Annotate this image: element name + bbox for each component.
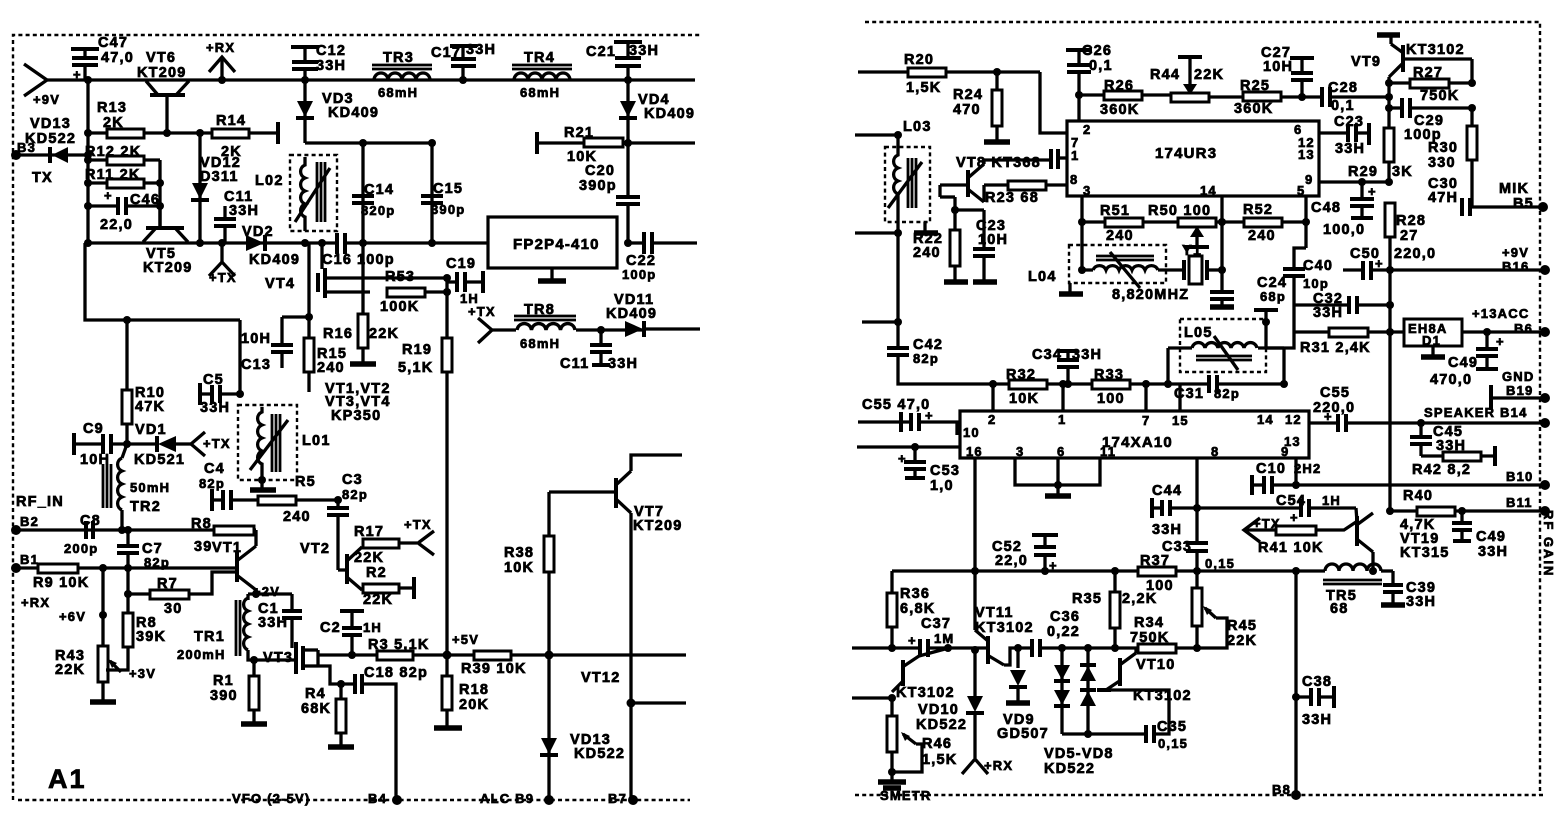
- svg-text:100: 100: [1097, 391, 1125, 407]
- arrow +TX below VT5: [209, 239, 237, 285]
- wire pin14 down: [1218, 196, 1226, 292]
- wire VT9 emitter bus x1389: [1385, 77, 1393, 128]
- resistor R5 240: [258, 474, 342, 525]
- svg-text:33H: 33H: [1302, 712, 1332, 728]
- svg-text:SPEAKER B14: SPEAKER B14: [1424, 405, 1528, 420]
- svg-text:KT3102: KT3102: [896, 685, 955, 701]
- svg-text:KT209: KT209: [137, 65, 187, 81]
- svg-text:KD522: KD522: [25, 131, 76, 147]
- transistor VT8 KT368: [940, 155, 1049, 202]
- svg-text:33H: 33H: [1478, 544, 1508, 560]
- svg-text:100,0: 100,0: [1323, 222, 1365, 238]
- label KP350 group: [325, 381, 391, 424]
- resistor R51 240: [1082, 203, 1245, 244]
- svg-text:82p: 82p: [342, 487, 368, 502]
- svg-text:VT4: VT4: [265, 276, 295, 292]
- svg-text:GD507: GD507: [997, 726, 1049, 742]
- resistor R4 68K: [301, 680, 354, 747]
- svg-text:C16: C16: [322, 252, 352, 268]
- resistor R19 5,1K: [398, 292, 452, 655]
- svg-text:KD521: KD521: [134, 452, 185, 468]
- svg-text:+6V: +6V: [59, 609, 86, 624]
- svg-text:33H: 33H: [1335, 141, 1365, 157]
- capacitor C14: [352, 182, 395, 218]
- wire +9V rail y80: [46, 78, 695, 81]
- capacitor C18 82p: [318, 665, 428, 800]
- svg-text:B16: B16: [1502, 259, 1529, 274]
- svg-text:+TX: +TX: [209, 270, 237, 285]
- svg-text:C55: C55: [1320, 385, 1350, 401]
- svg-text:50mH: 50mH: [130, 480, 170, 495]
- svg-text:RF_IN: RF_IN: [16, 494, 64, 510]
- diode VD11 KD409: [606, 292, 700, 337]
- svg-text:6: 6: [1057, 444, 1065, 459]
- svg-text:R23 68: R23 68: [985, 190, 1039, 206]
- svg-text:22,0: 22,0: [100, 217, 133, 233]
- resistor R39 10K: [443, 651, 687, 678]
- capacitor C23 33H at pin6: [1319, 114, 1369, 157]
- svg-text:1: 1: [1071, 148, 1079, 163]
- wire VT5 emitter to lower stage: [85, 243, 240, 394]
- resistor R12: [84, 144, 160, 165]
- resistor R8 39: [191, 516, 254, 555]
- capacitor C34 33H: [1032, 347, 1102, 388]
- svg-text:VD1: VD1: [135, 422, 167, 438]
- svg-text:R30: R30: [1428, 140, 1458, 156]
- trimmer R46 1,5K: [887, 698, 957, 776]
- capacitor C5 33H: [200, 372, 244, 416]
- svg-text:360K: 360K: [1234, 101, 1273, 117]
- svg-text:VT12: VT12: [581, 670, 620, 686]
- transistor VT1: [212, 530, 256, 594]
- svg-text:7: 7: [1142, 413, 1150, 428]
- trimmer R45 22K: [1192, 571, 1257, 652]
- transistor VT9 KT3102: [1351, 35, 1472, 83]
- capacitor C39 33H: [1381, 571, 1436, 610]
- svg-text:+RX: +RX: [984, 758, 1013, 773]
- node B7: [608, 791, 638, 806]
- svg-text:0,1: 0,1: [1331, 98, 1355, 114]
- resistor R36 6,8K: [887, 571, 935, 648]
- svg-text:10: 10: [963, 425, 980, 440]
- svg-text:GND: GND: [1502, 369, 1535, 384]
- transistor VT6 KT209: [137, 50, 189, 133]
- capacitor C4 82p: [199, 461, 258, 511]
- svg-text:39: 39: [194, 539, 213, 555]
- resistor R42 8,2: [1412, 446, 1495, 478]
- resistor R1 390: [210, 656, 267, 724]
- svg-text:C28: C28: [1328, 80, 1358, 96]
- resistor R22 240: [913, 185, 968, 282]
- wire pin8 column: [1193, 458, 1201, 542]
- svg-text:VD10: VD10: [918, 702, 959, 718]
- wire pin2 pin1 pin7 pin15: [993, 384, 1180, 411]
- node GND B19: [1491, 369, 1550, 410]
- screened coil L04: [1028, 245, 1183, 288]
- svg-text:22,0: 22,0: [995, 553, 1028, 569]
- capacitor C55 47,0: [858, 397, 957, 435]
- svg-text:2H2: 2H2: [1294, 461, 1321, 476]
- inductor TR8 68mH: [514, 302, 643, 351]
- svg-text:8: 8: [1070, 172, 1078, 187]
- ground stub L03: [914, 222, 938, 233]
- capacitor C32 33H: [1294, 291, 1394, 321]
- svg-text:C13: C13: [241, 357, 271, 373]
- svg-text:B19: B19: [1506, 383, 1533, 398]
- svg-text:TR2: TR2: [130, 499, 161, 515]
- diode VD13 KD522 bottom: [540, 732, 625, 762]
- svg-text:KD409: KD409: [249, 252, 300, 268]
- arrow +RX bottom: [962, 758, 1013, 774]
- node ALC B9: [480, 791, 554, 806]
- svg-text:R39 10K: R39 10K: [461, 661, 527, 677]
- svg-text:2: 2: [1083, 122, 1091, 137]
- diode VD3 KD409: [296, 80, 379, 143]
- svg-text:KT209: KT209: [633, 518, 683, 534]
- wire pin16 line: [857, 443, 960, 451]
- svg-text:68mH: 68mH: [378, 85, 418, 100]
- svg-text:C11: C11: [560, 356, 589, 372]
- svg-text:39K: 39K: [136, 629, 166, 645]
- svg-text:C21: C21: [586, 44, 616, 60]
- svg-text:TR1: TR1: [194, 629, 225, 645]
- svg-text:C12: C12: [316, 43, 346, 59]
- svg-text:MIK: MIK: [1499, 181, 1529, 197]
- svg-text:C40: C40: [1303, 258, 1333, 274]
- svg-text:+: +: [908, 633, 917, 648]
- svg-text:100K: 100K: [380, 299, 419, 315]
- capacitor C2 1H: [320, 611, 382, 659]
- svg-text:R13: R13: [97, 100, 127, 116]
- node B2: [11, 514, 39, 535]
- svg-text:VT8 KT368: VT8 KT368: [956, 155, 1041, 171]
- capacitor C42 82p: [887, 322, 993, 384]
- svg-text:VT11: VT11: [975, 605, 1014, 621]
- node +9V B16: [1390, 245, 1550, 275]
- capacitor C9 10H: [74, 421, 158, 468]
- transistor VT11 KT3102: [975, 605, 1034, 665]
- capacitor C35 0,15: [1111, 690, 1188, 751]
- svg-text:TX: TX: [32, 170, 53, 186]
- svg-text:10p: 10p: [1303, 276, 1329, 291]
- svg-text:33H: 33H: [1313, 305, 1343, 321]
- svg-text:D311: D311: [200, 169, 239, 185]
- capacitor C15: [421, 181, 465, 217]
- capacitor C20: [579, 143, 640, 243]
- svg-text:R35: R35: [1072, 591, 1102, 607]
- transistor VT10 KT3102: [1097, 648, 1192, 704]
- svg-text:12: 12: [1285, 412, 1302, 427]
- arrow +TX R17: [404, 517, 434, 555]
- node B11: [1506, 495, 1550, 516]
- resistor R27 750K: [1389, 65, 1476, 104]
- capacitor C27 10H: [1261, 45, 1314, 97]
- svg-text:240: 240: [913, 245, 941, 261]
- resistor R33 100: [1068, 367, 1150, 407]
- wire C54 row: [1197, 506, 1300, 509]
- IC 174XA10: [960, 411, 1309, 459]
- svg-text:C4: C4: [204, 461, 225, 477]
- resistor R26 360K: [1079, 78, 1171, 118]
- svg-text:KD409: KD409: [606, 306, 657, 322]
- svg-text:200p: 200p: [64, 541, 98, 556]
- capacitor C8 200p: [64, 513, 101, 556]
- wire C42 column: [862, 318, 902, 326]
- capacitor C47: [71, 35, 134, 82]
- svg-text:14: 14: [1257, 412, 1274, 427]
- svg-text:390p: 390p: [579, 178, 617, 194]
- svg-text:+13ACC: +13ACC: [1472, 306, 1529, 321]
- coupling cap at pin1: [1051, 149, 1067, 169]
- diode VD13 KD522: [16, 116, 88, 163]
- inductor TR2 50mH: [103, 444, 170, 530]
- diode VD10 KD522: [916, 646, 984, 758]
- capacitor C37 1M: [852, 616, 986, 657]
- svg-text:220,0: 220,0: [1394, 246, 1436, 262]
- capacitor C16: [322, 233, 395, 268]
- svg-text:RF GAIN: RF GAIN: [1541, 510, 1556, 577]
- svg-text:VT10: VT10: [1136, 657, 1175, 673]
- svg-text:R18: R18: [459, 682, 489, 698]
- svg-text:KD409: KD409: [644, 106, 695, 122]
- svg-text:33H: 33H: [200, 400, 230, 416]
- capacitor C50 220,0: [1343, 246, 1436, 280]
- svg-text:C10: C10: [1256, 461, 1286, 477]
- svg-text:20K: 20K: [459, 697, 489, 713]
- svg-text:C9: C9: [83, 421, 104, 437]
- wire L03 bottom: [855, 214, 902, 322]
- wire VT12 branch: [627, 699, 687, 708]
- svg-text:KP350: KP350: [331, 408, 381, 424]
- screened coil L02: [255, 155, 337, 231]
- screened coil L01: [238, 405, 331, 480]
- ground pins 3 6 11: [1015, 458, 1100, 496]
- screened coil L05: [1168, 305, 1294, 384]
- svg-text:R38: R38: [504, 545, 534, 561]
- svg-text:C2: C2: [320, 620, 341, 636]
- svg-text:1H: 1H: [363, 620, 382, 635]
- svg-text:ALC B9: ALC B9: [480, 791, 534, 806]
- node B8: [1272, 782, 1301, 800]
- svg-text:R24: R24: [953, 87, 983, 103]
- resistor R21: [537, 125, 695, 165]
- svg-text:R4: R4: [305, 686, 326, 702]
- svg-text:33H: 33H: [229, 203, 259, 219]
- capacitor C55 220,0 speaker: [1309, 385, 1545, 432]
- arrow +TX right: [1244, 516, 1281, 542]
- svg-text:+: +: [1290, 510, 1299, 525]
- resistor R23 68: [984, 181, 1067, 206]
- wire pin16 to VT11: [973, 458, 976, 630]
- capacitor C21: [586, 42, 659, 84]
- node B10: [1506, 469, 1550, 490]
- ground SMETR: [878, 772, 932, 803]
- svg-text:1,0: 1,0: [930, 478, 954, 494]
- svg-text:KT315: KT315: [1400, 545, 1450, 561]
- svg-text:0,1: 0,1: [1089, 58, 1113, 74]
- capacitor C22: [622, 232, 697, 282]
- IC filter FP2P4-410: [488, 217, 617, 281]
- svg-text:R19: R19: [402, 342, 432, 358]
- resistor R7 30: [124, 572, 236, 617]
- svg-text:1M: 1M: [934, 631, 954, 646]
- svg-text:R41 10K: R41 10K: [1258, 540, 1324, 556]
- wire R38 to bottom ALC: [547, 655, 550, 800]
- capacitor C44 33H: [1152, 483, 1197, 538]
- wire to pin7 174UR3: [1040, 72, 1067, 133]
- svg-text:+: +: [1049, 558, 1058, 573]
- diode VD9 GD507: [997, 644, 1049, 742]
- svg-text:200mH: 200mH: [177, 647, 226, 662]
- resistor R32 10K: [989, 367, 1068, 407]
- svg-text:10H: 10H: [1263, 59, 1293, 75]
- capacitor C26 0,1: [1066, 43, 1113, 121]
- resistor R41 10K: [1258, 522, 1356, 556]
- svg-text:68mH: 68mH: [520, 336, 560, 351]
- svg-text:D1: D1: [1422, 333, 1441, 348]
- capacitor C29 100p: [1389, 98, 1476, 143]
- svg-text:750K: 750K: [1420, 88, 1459, 104]
- resistor R31 2,4K: [1294, 328, 1404, 356]
- capacitor C12: [291, 43, 346, 84]
- svg-text:B1: B1: [20, 552, 39, 567]
- resistor R29 3K: [1348, 128, 1413, 182]
- svg-text:47H: 47H: [1428, 190, 1458, 206]
- transistor VT4 KP350: [265, 239, 447, 298]
- inductor TR1 200mH: [177, 594, 294, 662]
- svg-text:1,5K: 1,5K: [922, 752, 957, 768]
- svg-text:4,7K: 4,7K: [1400, 517, 1435, 533]
- capacitor C10 2H2: [1252, 461, 1545, 495]
- resistor R43 22K: [55, 568, 156, 702]
- svg-text:L02: L02: [255, 173, 284, 189]
- capacitor C53 1,0: [898, 447, 960, 494]
- transistor VT3: [263, 642, 352, 674]
- transistor KT3102 left: [852, 649, 955, 702]
- svg-text:R46: R46: [922, 736, 952, 752]
- capacitor C45 33H: [1410, 423, 1466, 456]
- svg-text:A1: A1: [48, 764, 87, 794]
- svg-text:10K: 10K: [504, 560, 534, 576]
- diode VD1 KD521: [134, 422, 192, 468]
- svg-text:R42 8,2: R42 8,2: [1412, 462, 1471, 478]
- resistor R20 1,5K: [858, 52, 1040, 96]
- svg-text:B4: B4: [368, 791, 387, 806]
- capacitor C19: [446, 256, 483, 306]
- transistor VT7 KT209: [549, 455, 683, 800]
- resistor R35 2,2K: [1072, 571, 1157, 648]
- svg-text:VT9: VT9: [1351, 54, 1381, 70]
- resistor R25 360K: [1234, 78, 1322, 117]
- svg-text:68K: 68K: [301, 701, 331, 717]
- capacitor C1 33H: [258, 594, 302, 648]
- inductor TR4: [512, 50, 572, 100]
- svg-text:330: 330: [1428, 155, 1456, 171]
- svg-text:68: 68: [1330, 601, 1349, 617]
- wire emitter node: [248, 590, 292, 598]
- svg-text:B11: B11: [1506, 495, 1533, 510]
- svg-text:KT3102: KT3102: [1406, 42, 1465, 58]
- svg-text:R2: R2: [366, 565, 387, 581]
- svg-text:+5V: +5V: [452, 632, 479, 647]
- svg-text:+RX: +RX: [21, 595, 50, 610]
- svg-text:C19: C19: [446, 256, 476, 272]
- svg-text:+: +: [73, 67, 82, 82]
- arrow +TX TR8 row: [468, 304, 516, 343]
- svg-text:B10: B10: [1506, 469, 1533, 484]
- capacitor C36 0,22: [1032, 609, 1138, 657]
- transistor VT2: [300, 541, 362, 590]
- node MIK B5: [1472, 181, 1548, 212]
- svg-text:15: 15: [1172, 413, 1189, 428]
- transistor VT19 KT315: [1356, 508, 1450, 571]
- svg-text:240: 240: [1106, 228, 1134, 244]
- svg-text:22K: 22K: [354, 550, 384, 566]
- trimmer R50 100: [1148, 203, 1216, 247]
- svg-text:5,1K: 5,1K: [398, 360, 433, 376]
- capacitor C31 82p: [1140, 375, 1288, 402]
- svg-text:2: 2: [988, 412, 996, 427]
- svg-text:C55 47,0: C55 47,0: [862, 397, 930, 413]
- wire main rail y571: [892, 567, 1325, 575]
- ground under L01: [250, 476, 276, 490]
- wire B2 rail y530: [16, 526, 256, 534]
- capacitor C7 82p: [117, 530, 170, 594]
- dashed border right block: [855, 22, 1545, 795]
- svg-text:VT3: VT3: [263, 650, 293, 666]
- svg-text:240: 240: [283, 509, 311, 525]
- svg-text:27: 27: [1400, 228, 1419, 244]
- svg-text:B8: B8: [1272, 782, 1291, 797]
- svg-text:+TX: +TX: [203, 436, 231, 451]
- svg-text:22K: 22K: [55, 662, 85, 678]
- svg-text:3: 3: [1016, 444, 1024, 459]
- svg-text:0,15: 0,15: [1158, 736, 1188, 751]
- svg-text:B6: B6: [1514, 321, 1533, 336]
- arrow +RX top: [206, 40, 235, 84]
- capacitor C49 33H right: [1452, 511, 1508, 560]
- svg-text:C48: C48: [1311, 200, 1341, 216]
- svg-text:82p: 82p: [199, 476, 225, 491]
- svg-text:R31 2,4K: R31 2,4K: [1300, 340, 1371, 356]
- capacitor C11: [214, 189, 259, 243]
- svg-text:174UR3: 174UR3: [1155, 145, 1217, 162]
- capacitor C46: [84, 188, 164, 233]
- svg-text:+RX: +RX: [206, 40, 235, 55]
- capacitor C28 0,1: [1322, 80, 1393, 114]
- resistor R13: [84, 100, 212, 138]
- svg-text:470,0: 470,0: [1430, 372, 1472, 388]
- resistor R52 240: [1243, 196, 1310, 244]
- capacitor C11 33H right: [560, 326, 638, 372]
- svg-text:KD522: KD522: [1044, 761, 1095, 777]
- svg-text:5: 5: [1297, 183, 1305, 198]
- svg-text:360K: 360K: [1100, 102, 1139, 118]
- capacitor C30 47H: [1428, 176, 1470, 216]
- wire left vertical bus x88: [84, 76, 92, 243]
- capacitor C48 100,0: [1311, 178, 1393, 238]
- svg-text:+: +: [1368, 184, 1377, 199]
- svg-text:L05: L05: [1184, 325, 1213, 341]
- resistor R40 4,7K: [1386, 488, 1545, 533]
- resistor R9 10K: [16, 564, 236, 591]
- node B3 / left pin: [11, 140, 53, 186]
- resistor R53 100K: [380, 269, 451, 315]
- svg-text:+: +: [104, 188, 113, 203]
- capacitor C38 33H: [1296, 674, 1334, 728]
- resistor R34 750K: [1130, 615, 1197, 653]
- svg-text:33H: 33H: [1152, 522, 1182, 538]
